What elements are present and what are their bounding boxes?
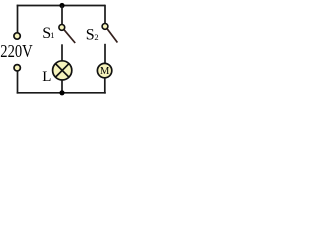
lamp L cross line 2 xyxy=(55,63,69,77)
wire left lower vertical xyxy=(17,71,19,93)
switch S2 pivot xyxy=(102,24,108,30)
switch S1 blade xyxy=(64,30,75,43)
svg-text:M: M xyxy=(100,66,110,77)
svg-text:2: 2 xyxy=(94,32,98,42)
wire top horizontal xyxy=(17,5,105,7)
svg-text:220V: 220V xyxy=(0,41,32,61)
switch S1 pivot xyxy=(59,25,65,31)
wire motor to bottom xyxy=(104,78,106,94)
node junction bottom xyxy=(59,90,64,95)
wire S1 branch drop xyxy=(61,6,63,25)
motor M circle xyxy=(97,63,111,77)
svg-text:S: S xyxy=(86,26,95,43)
wire lamp to bottom xyxy=(61,80,63,93)
wire left upper vertical xyxy=(17,5,19,33)
wire S1 to lamp xyxy=(61,44,63,61)
wire bottom horizontal xyxy=(17,92,106,94)
node junction top xyxy=(59,3,64,8)
terminal lower (220V source) xyxy=(14,65,20,71)
lamp L circle xyxy=(53,61,72,80)
terminal upper (220V source) xyxy=(14,33,20,39)
svg-text:1: 1 xyxy=(50,30,54,40)
wire right upper vertical xyxy=(104,5,106,24)
switch S2 blade xyxy=(107,29,117,43)
wire S2 to motor xyxy=(104,44,106,64)
svg-text:L: L xyxy=(42,69,51,85)
lamp L cross line 1 xyxy=(55,63,69,77)
